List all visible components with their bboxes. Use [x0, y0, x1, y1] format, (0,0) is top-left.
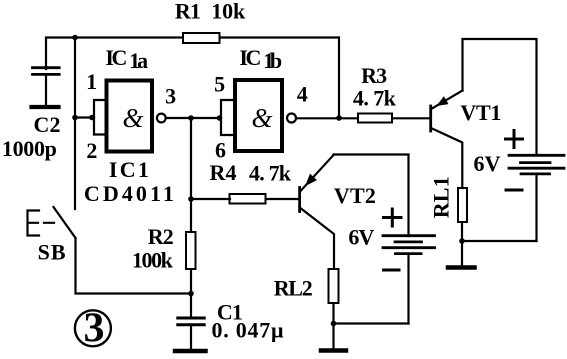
svg-text:1a: 1a — [129, 48, 148, 73]
svg-text:10k: 10k — [211, 0, 246, 24]
svg-text:3: 3 — [165, 84, 176, 109]
svg-text:4. 7k: 4. 7k — [353, 86, 397, 111]
svg-text:&: & — [122, 103, 143, 133]
svg-text:VT2: VT2 — [334, 183, 376, 208]
svg-text:IC: IC — [105, 45, 127, 70]
svg-text:0. 047μ: 0. 047μ — [212, 318, 285, 343]
svg-text:SB: SB — [38, 239, 66, 264]
svg-text:RL2: RL2 — [274, 276, 313, 301]
svg-text:1000p: 1000p — [2, 136, 57, 161]
svg-text:VT1: VT1 — [460, 100, 501, 125]
svg-text:4. 7k: 4. 7k — [249, 161, 292, 186]
svg-text:6: 6 — [215, 137, 226, 162]
svg-text:&: & — [251, 103, 272, 133]
svg-text:2: 2 — [86, 138, 97, 163]
svg-text:1: 1 — [86, 69, 97, 94]
svg-text:R3: R3 — [361, 63, 387, 88]
svg-text:3: 3 — [84, 306, 105, 352]
svg-text:IC1: IC1 — [109, 157, 149, 182]
svg-text:6V: 6V — [474, 151, 501, 176]
svg-text:C2: C2 — [34, 112, 61, 137]
svg-text:1b: 1b — [263, 48, 282, 73]
svg-text:4: 4 — [297, 82, 308, 107]
svg-text:IC: IC — [239, 45, 261, 70]
svg-text:R4: R4 — [210, 160, 237, 185]
svg-text:5: 5 — [214, 71, 225, 96]
svg-text:R1: R1 — [175, 0, 201, 24]
svg-text:6V: 6V — [348, 225, 374, 250]
svg-text:R2: R2 — [148, 224, 174, 249]
svg-text:RL1: RL1 — [428, 176, 453, 218]
svg-text:100k: 100k — [132, 248, 174, 273]
